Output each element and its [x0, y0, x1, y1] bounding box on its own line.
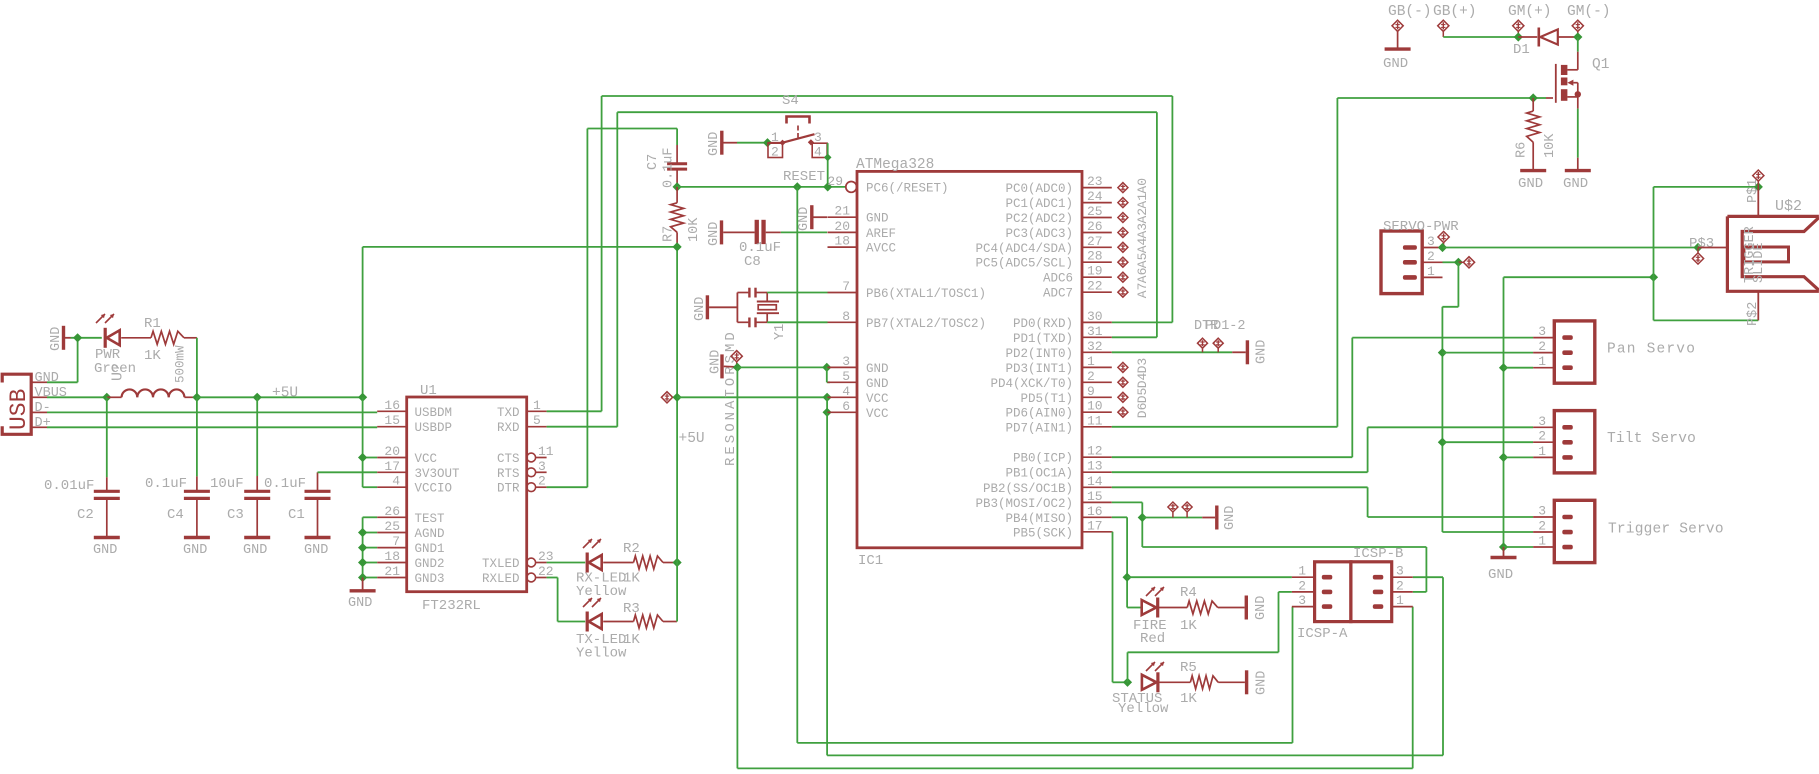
ground (R5): [1247, 670, 1270, 695]
pin labels USB: [35, 371, 67, 431]
ground (GB-): [1383, 49, 1411, 72]
svg-text:D3: D3: [1135, 358, 1150, 374]
net MOSI: [1112, 502, 1427, 592]
svg-text:P$2: P$2: [1746, 302, 1761, 326]
svg-text:500mW: 500mW: [174, 345, 188, 383]
wire: [363, 397, 378, 487]
wire: [1127, 607, 1142, 609]
svg-text:RXLED: RXLED: [482, 572, 520, 586]
svg-text:P$1: P$1: [1746, 179, 1761, 203]
junction: [673, 242, 682, 251]
resistor R6: [1527, 98, 1540, 169]
wire: [827, 143, 829, 187]
svg-text:PC0(ADC0): PC0(ADC0): [1005, 182, 1073, 196]
svg-text:PD6(AIN0): PD6(AIN0): [1005, 407, 1073, 421]
svg-text:25: 25: [384, 519, 400, 534]
label ATMega328: [856, 157, 934, 173]
svg-text:+5U: +5U: [679, 431, 705, 447]
ground (Q1): [1563, 171, 1591, 192]
wire: [826, 397, 828, 412]
svg-text:0.01uF: 0.01uF: [44, 478, 94, 494]
net TXLED: [547, 578, 586, 622]
svg-text:0.1uF: 0.1uF: [662, 147, 677, 188]
flag GND: [731, 351, 742, 368]
svg-text:Yellow: Yellow: [576, 584, 627, 600]
pin TXD: [527, 398, 547, 413]
svg-text:28: 28: [1087, 249, 1103, 264]
svg-text:PB5(SCK): PB5(SCK): [1013, 526, 1073, 540]
label +5V: [272, 386, 298, 402]
svg-text:27: 27: [1087, 234, 1103, 249]
svg-text:GND: GND: [693, 297, 708, 321]
svg-text:18: 18: [384, 549, 400, 564]
svg-text:3V3OUT: 3V3OUT: [415, 467, 461, 481]
flags A0-A7: [1118, 178, 1150, 298]
switch U$2 (slide/trigger): [1727, 216, 1819, 291]
svg-text:GND: GND: [35, 371, 59, 386]
net +5V rail to VCC: [677, 396, 827, 398]
svg-text:20: 20: [384, 444, 400, 459]
svg-text:PB6(XTAL1/TOSC1): PB6(XTAL1/TOSC1): [866, 287, 986, 301]
net AIN1 (to Q1): [1112, 98, 1533, 427]
wire: [737, 142, 768, 144]
svg-text:PB7(XTAL2/TOSC2): PB7(XTAL2/TOSC2): [866, 317, 986, 331]
connector ICSP-A box: [1315, 562, 1351, 622]
svg-text:1: 1: [1538, 534, 1546, 549]
wire: [1158, 607, 1188, 609]
svg-text:1: 1: [1538, 354, 1546, 369]
net TILT: [1112, 427, 1533, 472]
svg-text:SLIDE: SLIDE: [1752, 242, 1767, 283]
pin (circle) 11: [527, 444, 554, 462]
label ICSP-B: [1353, 546, 1403, 562]
LED RX-LED (Yellow): [583, 539, 602, 573]
svg-text:23: 23: [1087, 174, 1103, 189]
junction: [102, 393, 111, 402]
junction: [1438, 348, 1447, 447]
label DTR/PD1-2: [1194, 319, 1246, 334]
junction: [1693, 243, 1702, 252]
svg-text:R4: R4: [1180, 585, 1197, 601]
svg-text:GND: GND: [1518, 176, 1543, 192]
labels S4: [771, 93, 822, 160]
labels C7: [646, 147, 677, 188]
svg-text:GND: GND: [1383, 56, 1408, 72]
net GB+: [1443, 36, 1518, 38]
labels R4: [1133, 585, 1197, 647]
labels R3: [576, 601, 640, 662]
svg-text:GND: GND: [797, 207, 812, 231]
flag GB(-): [1392, 20, 1403, 48]
junction: [1754, 182, 1763, 191]
svg-text:C8: C8: [744, 254, 761, 270]
flag: [1182, 502, 1192, 518]
net +5V rail: [197, 396, 363, 398]
pin P$3: [1698, 247, 1727, 249]
pin names U1 left: [415, 406, 461, 586]
svg-text:USBDM: USBDM: [415, 406, 453, 420]
svg-text:R7: R7: [662, 226, 677, 242]
svg-text:1K: 1K: [144, 348, 161, 364]
label Trigger Servo: [1608, 522, 1724, 538]
svg-text:GND1: GND1: [415, 542, 445, 556]
label FT232RL: [422, 598, 481, 614]
node D-: [47, 411, 377, 413]
label GM(-): [1567, 4, 1611, 20]
svg-text:PB2(SS/OC1B): PB2(SS/OC1B): [983, 482, 1073, 496]
svg-text:10uF: 10uF: [210, 476, 244, 492]
svg-text:PC2(ADC2): PC2(ADC2): [1005, 212, 1073, 226]
wire: [663, 621, 677, 623]
label SLIDE: [1752, 242, 1767, 283]
svg-text:22: 22: [1087, 279, 1103, 294]
svg-text:GM(+): GM(+): [1508, 4, 1552, 20]
svg-text:11: 11: [538, 444, 554, 459]
svg-text:PB1(OC1A): PB1(OC1A): [1005, 467, 1073, 481]
junction: [1438, 243, 1447, 252]
ground (R6): [1518, 171, 1546, 192]
net XTAL1: [767, 292, 827, 294]
ground (servos): [1488, 547, 1517, 583]
wire: [1577, 37, 1579, 70]
resistor R7: [671, 187, 684, 247]
svg-text:GND: GND: [1223, 506, 1238, 530]
pins SERVO-PWR: [1403, 234, 1443, 280]
svg-text:1: 1: [1298, 564, 1306, 579]
labels R2: [576, 541, 640, 600]
svg-text:A5: A5: [1135, 253, 1150, 269]
svg-text:D-: D-: [35, 401, 51, 416]
junction: [1573, 32, 1582, 41]
flag: [1168, 502, 1178, 518]
IC U1 FT232RL box: [407, 397, 527, 592]
svg-text:PD3(INT1): PD3(INT1): [1005, 362, 1073, 376]
svg-text:25: 25: [1087, 204, 1103, 219]
svg-text:1: 1: [1396, 593, 1404, 608]
wire: [1442, 531, 1533, 533]
svg-text:ADC7: ADC7: [1043, 287, 1073, 301]
ground (IC1 GND pin21): [797, 205, 827, 231]
capacitor C2: [44, 478, 120, 523]
svg-text:2: 2: [1538, 519, 1546, 534]
svg-text:PC1(ADC1): PC1(ADC1): [1005, 197, 1073, 211]
svg-text:1: 1: [771, 130, 779, 145]
svg-text:2: 2: [1538, 429, 1546, 444]
svg-text:R3: R3: [623, 601, 640, 617]
junction: [358, 528, 367, 582]
label +5V: [679, 431, 705, 447]
svg-text:C4: C4: [167, 507, 184, 523]
junction: [1514, 32, 1523, 41]
svg-text:C7: C7: [646, 154, 661, 170]
pins Trigger Servo: [1533, 504, 1554, 549]
svg-text:A1: A1: [1135, 193, 1150, 209]
svg-text:GND: GND: [709, 350, 724, 374]
resistor R2: [634, 556, 664, 569]
pin (circle) 23: [527, 549, 554, 567]
ground: [93, 538, 120, 559]
svg-text:21: 21: [834, 204, 850, 219]
svg-text:FT232RL: FT232RL: [422, 598, 481, 614]
wire: [1504, 546, 1534, 548]
wire: [1504, 456, 1534, 458]
svg-text:1: 1: [1427, 264, 1435, 279]
junction: [1138, 513, 1147, 522]
junction: [192, 393, 201, 402]
labels R7: [662, 217, 703, 242]
svg-text:GND: GND: [707, 222, 722, 246]
svg-text:6: 6: [842, 399, 850, 414]
wire: [106, 397, 108, 491]
resistor R5: [1190, 676, 1218, 689]
IC IC1 ATMega328 box: [857, 171, 1082, 547]
svg-text:ICSP-A: ICSP-A: [1297, 626, 1348, 642]
wire: [184, 396, 197, 398]
wire: [1127, 576, 1292, 578]
svg-text:16: 16: [384, 398, 400, 413]
svg-text:GND: GND: [243, 543, 267, 558]
svg-text:R5: R5: [1180, 660, 1197, 676]
capacitor C4: [145, 476, 210, 523]
svg-text:7: 7: [392, 534, 400, 549]
svg-text:21: 21: [384, 564, 400, 579]
svg-text:PD4(XCK/T0): PD4(XCK/T0): [990, 377, 1073, 391]
svg-text:AREF: AREF: [866, 227, 896, 241]
junction: [358, 453, 367, 462]
junction: [1454, 258, 1463, 267]
wire: [256, 498, 258, 537]
wire: [106, 498, 108, 537]
wire: [363, 517, 378, 577]
transistor Q1: [1556, 64, 1581, 103]
svg-text:GND: GND: [1255, 671, 1270, 695]
svg-text:3: 3: [1427, 234, 1435, 249]
svg-text:11: 11: [1087, 413, 1103, 428]
pins IC1 left: [827, 174, 857, 414]
ground (PD2): [1232, 340, 1269, 365]
svg-text:15: 15: [384, 413, 400, 428]
net SERVO-GND: [1504, 277, 1654, 547]
svg-text:4: 4: [814, 145, 822, 160]
pin P$1: [1746, 179, 1761, 216]
pins U1 left: [377, 398, 407, 579]
junction: [673, 558, 682, 567]
svg-text:1: 1: [1087, 354, 1095, 369]
svg-text:Trigger Servo: Trigger Servo: [1608, 522, 1724, 538]
svg-text:PD1(TXD): PD1(TXD): [1013, 332, 1073, 346]
pads ICSP: [1322, 575, 1384, 609]
pin names IC1 right: [975, 182, 1073, 540]
flag GM(-): [1572, 20, 1583, 37]
net MISO: [1112, 517, 1127, 607]
flag: [1438, 231, 1449, 247]
wire: [121, 337, 151, 339]
svg-text:20: 20: [834, 219, 850, 234]
flags D3-D6: [1118, 358, 1150, 418]
svg-text:SERVO-PWR: SERVO-PWR: [1383, 219, 1459, 235]
labels C8: [739, 240, 781, 270]
label U$2: [1775, 198, 1802, 215]
ground (flag): [709, 350, 736, 379]
label GB(+): [1433, 4, 1477, 20]
svg-text:PB3(MOSI/OC2): PB3(MOSI/OC2): [975, 497, 1073, 511]
junction: [1123, 573, 1132, 582]
ground: [183, 538, 210, 559]
svg-text:19: 19: [1087, 264, 1103, 279]
svg-text:AGND: AGND: [415, 527, 445, 541]
junction: [73, 333, 82, 342]
wire: [1218, 681, 1245, 683]
svg-text:VCC: VCC: [866, 392, 889, 406]
svg-text:2: 2: [771, 145, 779, 160]
wire: [1218, 607, 1245, 609]
svg-text:Tilt Servo: Tilt Servo: [1607, 431, 1696, 447]
net +5V (bus2): [827, 412, 1443, 755]
net GND (bus3): [737, 367, 1412, 768]
svg-text:GND: GND: [49, 327, 64, 351]
ground (R4): [1246, 596, 1269, 621]
svg-text:Pan Servo: Pan Servo: [1607, 342, 1696, 358]
ground: [304, 538, 331, 559]
svg-text:2: 2: [538, 474, 546, 489]
svg-text:A7: A7: [1135, 283, 1150, 299]
ground (S4): [707, 131, 737, 156]
svg-text:VCC: VCC: [415, 452, 438, 466]
switch S4: [768, 117, 828, 158]
svg-text:C3: C3: [227, 507, 244, 523]
svg-text:26: 26: [1087, 219, 1103, 234]
svg-text:U?: U?: [110, 363, 127, 381]
label GM(+): [1508, 4, 1552, 20]
svg-text:VBUS: VBUS: [35, 386, 67, 401]
svg-text:+5U: +5U: [272, 386, 298, 402]
svg-text:30: 30: [1087, 309, 1103, 324]
svg-text:A4: A4: [1135, 237, 1150, 253]
inductor U? (ferrite bead): [122, 389, 185, 397]
svg-text:GND: GND: [1563, 176, 1588, 192]
ground (Y1): [693, 295, 737, 321]
svg-text:3: 3: [1538, 414, 1546, 429]
svg-text:29: 29: [827, 174, 843, 189]
crystal Y1 (resonator): [737, 288, 779, 328]
svg-text:GND2: GND2: [415, 557, 445, 571]
svg-text:1: 1: [1538, 444, 1546, 459]
net RESET (to ICSP-A): [797, 187, 1292, 743]
ground (U1): [348, 578, 376, 612]
label TRIGGER: [1743, 226, 1758, 283]
net INT0: [1112, 351, 1232, 353]
svg-text:A6: A6: [1135, 268, 1150, 284]
svg-text:12: 12: [1087, 444, 1103, 459]
junction: [793, 182, 802, 191]
svg-text:24: 24: [1087, 189, 1103, 204]
svg-text:1K: 1K: [1180, 691, 1197, 707]
connector USB: [2, 374, 31, 434]
capacitor C8: [723, 220, 827, 244]
svg-text:R6: R6: [1515, 142, 1530, 158]
junction: [823, 408, 832, 417]
net SCK: [1112, 532, 1128, 683]
labels PWR LED: [94, 347, 136, 377]
svg-text:D5: D5: [1135, 388, 1150, 404]
LED TX-LED (Yellow): [583, 598, 602, 632]
svg-text:DTR: DTR: [497, 482, 520, 496]
wire: [318, 472, 378, 491]
wire: [196, 498, 198, 537]
svg-text:31: 31: [1087, 324, 1103, 339]
wire: [603, 621, 633, 623]
pin (circle) 2: [527, 474, 547, 492]
svg-text:A3: A3: [1135, 223, 1150, 239]
labels R5: [1112, 660, 1197, 717]
svg-text:2: 2: [1396, 578, 1404, 593]
net TRIGGER: [1112, 487, 1533, 517]
svg-text:GND: GND: [1254, 596, 1269, 620]
svg-text:GND: GND: [866, 377, 889, 391]
svg-text:5: 5: [533, 413, 541, 428]
svg-text:PB4(MISO): PB4(MISO): [1005, 512, 1073, 526]
capacitor C3: [210, 476, 270, 523]
svg-text:Yellow: Yellow: [1118, 701, 1169, 717]
junction: [1529, 93, 1538, 102]
svg-text:D4: D4: [1135, 372, 1150, 388]
svg-text:PC5(ADC5/SCL): PC5(ADC5/SCL): [975, 257, 1073, 271]
svg-text:3: 3: [1538, 324, 1546, 339]
svg-text:PC4(ADC4/SDA): PC4(ADC4/SDA): [975, 242, 1073, 256]
junction: [823, 154, 832, 192]
svg-text:3: 3: [814, 130, 822, 145]
wire: [1142, 517, 1202, 519]
connector SERVO-PWR box: [1381, 231, 1422, 294]
svg-text:9: 9: [1087, 384, 1095, 399]
wire: [1442, 441, 1533, 443]
capacitor C7: [667, 145, 687, 187]
junction: [673, 182, 682, 191]
net SERVO-V+ (to U$2): [1443, 247, 1699, 249]
svg-text:RXD: RXD: [497, 421, 520, 435]
svg-text:GND: GND: [93, 543, 117, 558]
net +5V (column): [676, 247, 678, 622]
svg-text:TEST: TEST: [415, 512, 446, 526]
wire: [71, 337, 102, 339]
pins ICSP: [1292, 564, 1413, 608]
net RXLED: [547, 562, 586, 564]
net SERVO-PWR-2: [1442, 262, 1458, 532]
wire: [107, 396, 122, 398]
svg-text:U$2: U$2: [1775, 198, 1802, 215]
svg-text:GND: GND: [866, 212, 889, 226]
svg-text:CTS: CTS: [497, 452, 520, 466]
label SERVO-PWR: [1383, 219, 1459, 235]
svg-text:16: 16: [1087, 504, 1103, 519]
svg-text:Red: Red: [1140, 631, 1165, 647]
label D1: [1513, 42, 1530, 58]
pin (circle) 22: [527, 564, 554, 582]
wire: [196, 397, 198, 491]
flag GB(+): [1438, 20, 1449, 37]
LED FIRE (Red): [1142, 587, 1164, 618]
resistor R1: [151, 331, 184, 344]
svg-text:PB0(ICP): PB0(ICP): [1013, 452, 1073, 466]
svg-text:RTS: RTS: [497, 467, 520, 481]
label IC1: [858, 553, 883, 569]
label RESET: [783, 169, 825, 185]
net DTR: [547, 129, 678, 488]
wire: [1442, 352, 1533, 354]
wire: [663, 562, 677, 564]
svg-text:2: 2: [1427, 249, 1435, 264]
connector Trigger Servo: [1554, 500, 1595, 562]
